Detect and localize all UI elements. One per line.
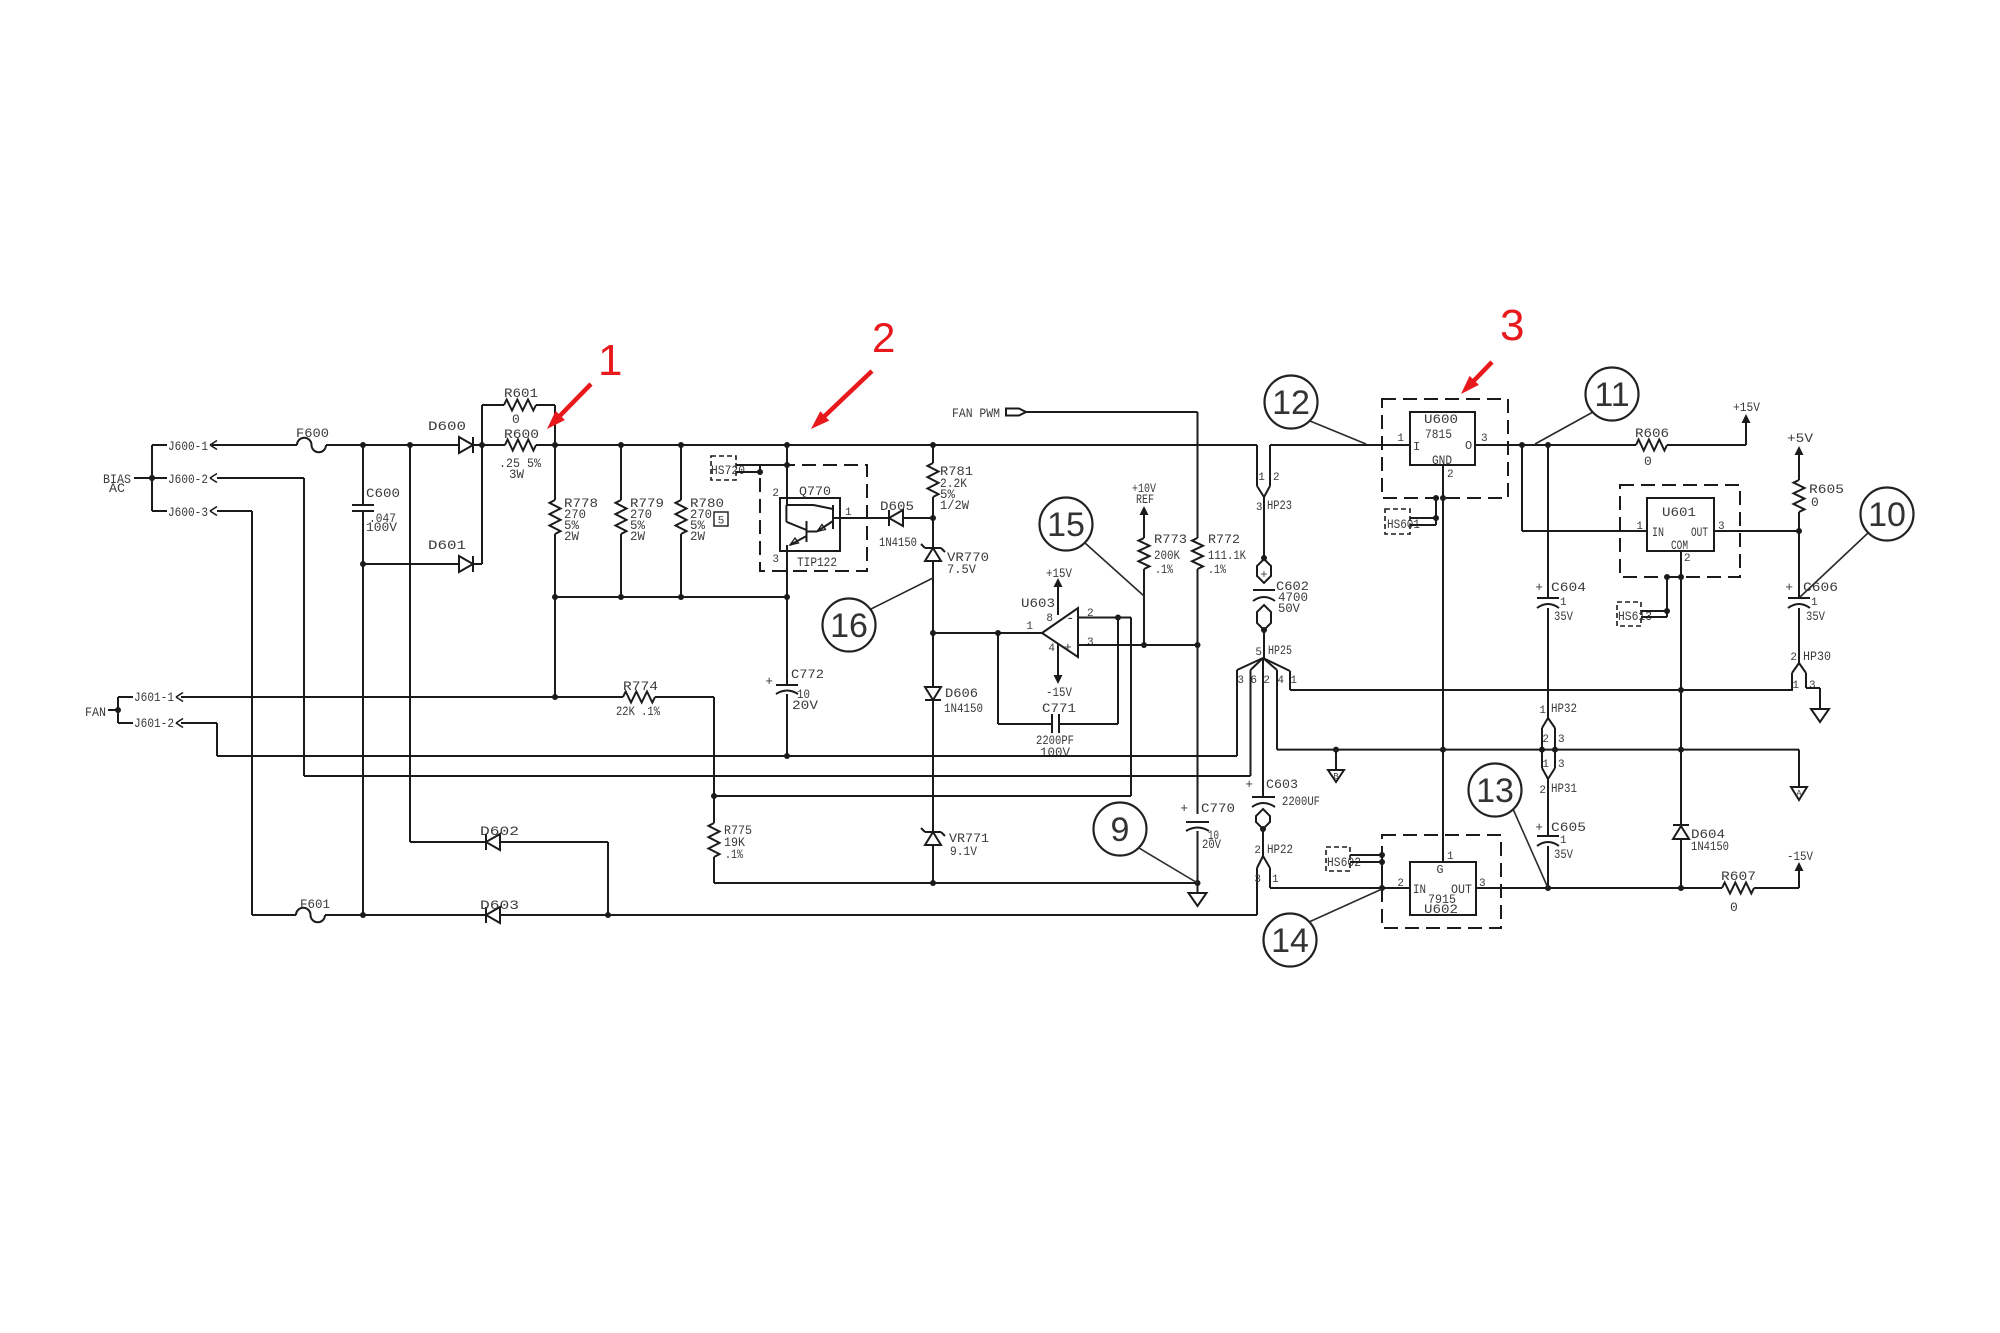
svg-text:0: 0: [1811, 495, 1819, 510]
svg-text:F601: F601: [300, 897, 330, 912]
svg-text:J600-3: J600-3: [168, 505, 208, 520]
svg-text:D602: D602: [480, 824, 519, 839]
svg-text:J601-1: J601-1: [134, 690, 174, 705]
svg-text:1: 1: [1397, 433, 1404, 445]
svg-text:+: +: [1535, 820, 1543, 835]
svg-text:HP31: HP31: [1551, 781, 1577, 796]
svg-text:22K .1%: 22K .1%: [616, 704, 660, 719]
svg-text:B: B: [1333, 772, 1339, 782]
svg-text:2: 2: [1254, 845, 1261, 857]
svg-text:C605: C605: [1551, 820, 1586, 835]
svg-text:C604: C604: [1551, 580, 1586, 595]
svg-text:16: 16: [830, 607, 868, 645]
svg-text:C603: C603: [1266, 777, 1298, 792]
svg-text:3: 3: [772, 554, 779, 566]
svg-text:1: 1: [1026, 621, 1033, 633]
svg-text:R772: R772: [1208, 532, 1240, 547]
svg-text:3: 3: [1558, 759, 1565, 771]
svg-text:50V: 50V: [1278, 601, 1300, 616]
svg-text:10: 10: [1868, 496, 1906, 534]
svg-text:2: 2: [1542, 734, 1549, 746]
svg-text:1: 1: [1636, 521, 1643, 533]
svg-text:C770: C770: [1201, 801, 1235, 816]
svg-text:U602: U602: [1424, 902, 1458, 917]
svg-text:1: 1: [1258, 472, 1265, 484]
svg-text:3W: 3W: [509, 467, 524, 482]
svg-text:2: 2: [772, 488, 779, 500]
svg-text:D603: D603: [480, 898, 519, 913]
svg-text:2: 2: [1273, 472, 1280, 484]
svg-text:+15V: +15V: [1733, 400, 1760, 415]
svg-text:5: 5: [1255, 647, 1262, 659]
svg-text:2: 2: [1263, 675, 1270, 687]
svg-text:3: 3: [1237, 675, 1244, 687]
svg-text:AC: AC: [109, 481, 125, 496]
svg-text:R601: R601: [504, 386, 538, 401]
svg-text:2: 2: [1447, 469, 1454, 481]
svg-text:.1%: .1%: [725, 847, 743, 862]
svg-text:8: 8: [1046, 613, 1053, 625]
svg-text:0: 0: [512, 412, 520, 427]
svg-text:.1%: .1%: [1155, 562, 1173, 577]
svg-text:REF: REF: [1136, 492, 1154, 507]
svg-text:-15V: -15V: [1787, 849, 1813, 864]
svg-text:J601-2: J601-2: [134, 716, 174, 731]
svg-text:HP32: HP32: [1551, 701, 1577, 716]
svg-text:R606: R606: [1635, 426, 1669, 441]
svg-text:+: +: [765, 674, 773, 689]
svg-text:0: 0: [1644, 454, 1652, 469]
svg-text:1: 1: [1560, 835, 1567, 847]
svg-text:4: 4: [1277, 675, 1284, 687]
svg-text:HP25: HP25: [1268, 643, 1292, 658]
svg-text:7815: 7815: [1425, 427, 1452, 442]
svg-text:+: +: [1064, 640, 1072, 655]
svg-text:R600: R600: [504, 427, 539, 442]
svg-text:Q770: Q770: [799, 484, 831, 499]
svg-text:2: 2: [872, 314, 895, 361]
svg-text:+: +: [1535, 580, 1543, 595]
svg-text:3: 3: [1254, 874, 1261, 886]
svg-text:G: G: [1436, 863, 1443, 877]
svg-text:1: 1: [1272, 874, 1279, 886]
svg-text:100V: 100V: [1040, 745, 1070, 760]
svg-text:-: -: [1066, 611, 1074, 627]
svg-text:1: 1: [1560, 597, 1567, 609]
svg-text:4: 4: [1048, 643, 1055, 655]
svg-text:100V: 100V: [366, 520, 397, 535]
svg-text:I: I: [1413, 440, 1420, 454]
svg-text:1N4150: 1N4150: [1691, 839, 1729, 854]
svg-text:-15V: -15V: [1046, 685, 1072, 700]
svg-text:+: +: [1180, 801, 1188, 816]
svg-text:12: 12: [1272, 384, 1310, 422]
svg-text:C772: C772: [791, 667, 824, 682]
svg-text:15: 15: [1047, 506, 1085, 544]
svg-text:IN: IN: [1413, 882, 1426, 897]
svg-text:5: 5: [718, 516, 725, 528]
svg-text:1: 1: [1290, 675, 1297, 687]
svg-text:1/2W: 1/2W: [940, 498, 969, 513]
svg-text:R773: R773: [1154, 532, 1187, 547]
svg-text:2: 2: [1790, 652, 1797, 664]
svg-text:1: 1: [598, 336, 622, 385]
svg-text:3: 3: [1087, 637, 1094, 649]
svg-text:1: 1: [1792, 680, 1799, 692]
svg-text:1: 1: [1447, 851, 1454, 863]
svg-text:1: 1: [1811, 597, 1818, 609]
svg-text:OUT: OUT: [1691, 525, 1708, 540]
svg-text:11: 11: [1594, 376, 1629, 414]
svg-text:HP23: HP23: [1267, 498, 1292, 513]
svg-text:2W: 2W: [690, 529, 705, 544]
svg-text:20V: 20V: [1202, 837, 1221, 852]
svg-text:35V: 35V: [1554, 609, 1573, 624]
svg-text:3: 3: [1500, 301, 1524, 350]
svg-text:FAN PWM: FAN PWM: [952, 406, 1000, 421]
svg-text:A: A: [1796, 789, 1802, 799]
svg-text:J600-1: J600-1: [168, 439, 208, 454]
svg-text:R774: R774: [623, 679, 658, 694]
svg-text:+15V: +15V: [1046, 566, 1072, 581]
svg-text:J600-2: J600-2: [168, 472, 208, 487]
svg-text:7.5V: 7.5V: [947, 562, 976, 577]
svg-text:+: +: [1260, 568, 1267, 582]
svg-text:3: 3: [1481, 433, 1488, 445]
svg-text:20V: 20V: [792, 698, 818, 713]
svg-text:2W: 2W: [630, 529, 645, 544]
svg-text:+: +: [1245, 777, 1253, 792]
svg-text:TIP122: TIP122: [797, 555, 837, 570]
svg-text:9: 9: [1111, 811, 1130, 849]
svg-text:IN: IN: [1652, 525, 1664, 540]
svg-text:13: 13: [1476, 772, 1514, 810]
svg-text:111.1K: 111.1K: [1208, 548, 1246, 563]
svg-text:.1%: .1%: [1208, 562, 1226, 577]
svg-text:O: O: [1465, 439, 1472, 453]
svg-text:3: 3: [1809, 680, 1816, 692]
svg-text:FAN: FAN: [85, 705, 106, 720]
svg-text:+5V: +5V: [1787, 431, 1813, 446]
svg-text:6: 6: [1250, 675, 1257, 687]
svg-text:1: 1: [1539, 705, 1546, 717]
svg-text:35V: 35V: [1554, 847, 1573, 862]
svg-text:35V: 35V: [1806, 609, 1825, 624]
svg-text:2W: 2W: [564, 529, 579, 544]
svg-text:1N4150: 1N4150: [944, 701, 983, 716]
svg-text:HP30: HP30: [1803, 649, 1831, 664]
svg-text:1: 1: [1542, 759, 1549, 771]
svg-text:U601: U601: [1662, 505, 1696, 520]
svg-text:2: 2: [1539, 785, 1546, 797]
svg-text:0: 0: [1730, 900, 1738, 915]
svg-text:3: 3: [1558, 734, 1565, 746]
svg-text:R607: R607: [1721, 869, 1756, 884]
svg-text:U603: U603: [1021, 596, 1055, 611]
svg-text:D606: D606: [945, 686, 978, 701]
svg-text:3: 3: [1256, 502, 1263, 514]
svg-text:2: 2: [1397, 878, 1404, 890]
svg-text:D601: D601: [428, 538, 466, 553]
svg-text:C771: C771: [1042, 701, 1076, 716]
svg-text:D605: D605: [880, 499, 914, 514]
svg-text:+: +: [1785, 580, 1793, 595]
svg-text:9.1V: 9.1V: [950, 844, 977, 859]
svg-text:COM: COM: [1671, 538, 1688, 553]
svg-text:1N4150: 1N4150: [879, 535, 917, 550]
svg-text:HP22: HP22: [1267, 842, 1293, 857]
svg-text:14: 14: [1271, 922, 1309, 960]
svg-text:D600: D600: [428, 419, 466, 434]
svg-text:C600: C600: [366, 486, 400, 501]
svg-text:200K: 200K: [1154, 548, 1180, 563]
svg-text:C606: C606: [1803, 580, 1838, 595]
svg-text:2200UF: 2200UF: [1282, 794, 1320, 809]
svg-text:U600: U600: [1424, 412, 1458, 427]
svg-text:2: 2: [1684, 553, 1691, 565]
svg-text:F600: F600: [296, 426, 329, 441]
